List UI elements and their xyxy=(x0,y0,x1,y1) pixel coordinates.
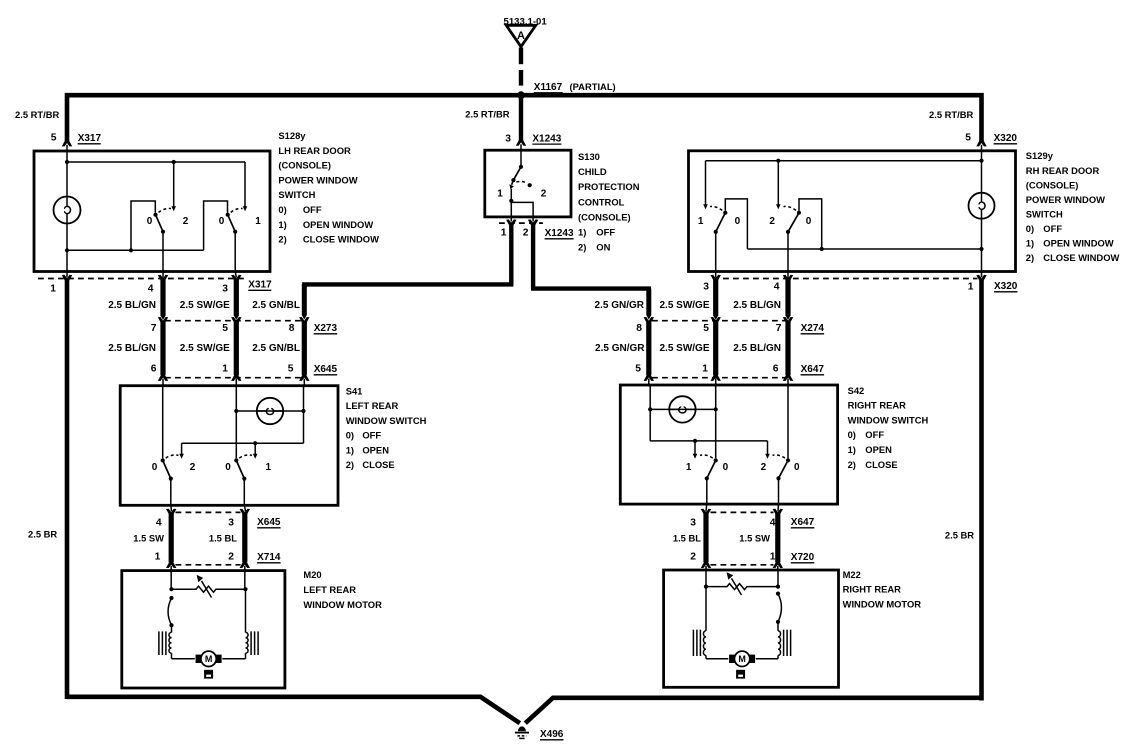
M20 case ground xyxy=(204,670,213,679)
M22 thermal contact arc xyxy=(776,592,780,596)
svg-text:A: A xyxy=(517,30,525,42)
svg-text:WINDOW SWITCH: WINDOW SWITCH xyxy=(346,415,427,426)
X645 pin 4 to X714 pin 1 wire 1.5 SW xyxy=(166,509,176,516)
svg-text:0): 0) xyxy=(1026,223,1034,234)
svg-text:5: 5 xyxy=(288,364,294,375)
node S41 lamp left xyxy=(234,409,238,413)
field coil M22 right xyxy=(778,631,781,656)
svg-text:1: 1 xyxy=(155,552,161,563)
svg-text:2: 2 xyxy=(541,189,547,200)
svg-text:WINDOW MOTOR: WINDOW MOTOR xyxy=(843,598,922,609)
M22 input wire right xyxy=(777,571,779,586)
node switch1 pivot xyxy=(161,230,165,234)
svg-text:PROTECTION: PROTECTION xyxy=(578,181,640,192)
svg-text:1.5 BL: 1.5 BL xyxy=(673,532,701,543)
svg-text:2.5 SW/GE: 2.5 SW/GE xyxy=(180,343,230,354)
X1243 pin 1 connector and wire 2.5 GN/BL xyxy=(506,219,516,226)
X273 pin 7 to X645 pin 6 wire 2.5 BL/GN xyxy=(158,317,168,324)
svg-text:2): 2) xyxy=(578,242,586,253)
switch2 S129y contact 0 xyxy=(797,211,801,215)
connector X647 row xyxy=(652,377,790,379)
M22 left branch wire xyxy=(705,587,707,631)
connector X320 pin 5 entry xyxy=(976,139,986,146)
svg-text:OPEN: OPEN xyxy=(362,444,389,455)
svg-text:5: 5 xyxy=(965,133,971,144)
svg-text:0): 0) xyxy=(346,430,354,441)
node S42 rail junction xyxy=(693,439,697,443)
svg-text:1.5 BL: 1.5 BL xyxy=(209,532,237,543)
connector X1243 row xyxy=(499,222,543,224)
svg-text:3: 3 xyxy=(690,517,696,528)
switch1 S129y dashed throw xyxy=(710,206,722,210)
switch2 S129y lever xyxy=(788,213,799,232)
svg-text:CLOSE WINDOW: CLOSE WINDOW xyxy=(1043,252,1119,263)
svg-text:3: 3 xyxy=(505,133,511,144)
svg-text:2.5 BR: 2.5 BR xyxy=(945,530,974,541)
M20 left core lines xyxy=(165,631,167,655)
svg-text:7: 7 xyxy=(151,323,157,334)
svg-text:1: 1 xyxy=(497,189,503,200)
S41 cross rail wire xyxy=(182,442,304,444)
S42 pin3 stub xyxy=(705,504,708,512)
M22 input wire left xyxy=(705,571,707,586)
M22 right branch wire xyxy=(777,622,779,631)
svg-text:4: 4 xyxy=(770,517,776,528)
svg-text:1: 1 xyxy=(222,364,228,375)
connector X645 row xyxy=(165,377,302,379)
S129y top rail wire xyxy=(706,160,982,162)
svg-text:0: 0 xyxy=(225,462,231,473)
X645 pin 6 entry to S41 xyxy=(158,374,168,381)
connector X1243 pin 3 entry xyxy=(516,139,526,146)
switch S130 lever xyxy=(513,167,521,180)
S128y lamp branch wire xyxy=(66,152,68,197)
connector X320 row xyxy=(713,278,978,280)
node S129y top rail junction xyxy=(776,159,780,163)
svg-text:2.5 GN/BL: 2.5 GN/BL xyxy=(252,300,300,311)
node S130 lever kink xyxy=(511,178,515,182)
svg-text:2): 2) xyxy=(278,234,286,245)
svg-text:8: 8 xyxy=(289,323,295,334)
svg-text:0: 0 xyxy=(723,462,729,473)
svg-text:2: 2 xyxy=(761,462,767,473)
M20 input wire left xyxy=(170,572,172,589)
M22 right core lines xyxy=(783,630,785,656)
svg-text:1: 1 xyxy=(770,552,776,563)
svg-text:X645: X645 xyxy=(257,517,281,528)
svg-text:2.5 BL/GN: 2.5 BL/GN xyxy=(733,343,781,354)
switch S130 box xyxy=(485,150,571,217)
svg-text:S42: S42 xyxy=(848,385,865,396)
svg-text:2): 2) xyxy=(346,459,354,470)
node S128y bottom rail junction xyxy=(129,248,133,252)
switch2 S42 lever xyxy=(779,460,789,478)
svg-text:X317: X317 xyxy=(248,280,272,291)
svg-text:CLOSE: CLOSE xyxy=(362,459,394,470)
svg-text:2.5 RT/BR: 2.5 RT/BR xyxy=(15,109,60,120)
svg-text:RIGHT REAR: RIGHT REAR xyxy=(848,400,907,411)
node S42 lamp right xyxy=(714,407,718,411)
motor M20 box xyxy=(122,571,285,688)
svg-text:1: 1 xyxy=(501,228,507,239)
svg-text:(CONSOLE): (CONSOLE) xyxy=(278,160,331,171)
switch1 S41 lever xyxy=(163,460,171,478)
svg-text:(CONSOLE): (CONSOLE) xyxy=(1026,179,1079,190)
S130 contact 2 dot xyxy=(528,183,532,187)
svg-text:LH REAR DOOR: LH REAR DOOR xyxy=(278,145,351,156)
svg-text:2.5 RT/BR: 2.5 RT/BR xyxy=(465,108,510,119)
S129y pin 4 stub xyxy=(787,271,789,278)
S129y bottom rail wire xyxy=(747,248,981,250)
node X1167 bus junction xyxy=(517,91,525,99)
S129y hook wire to switch2 contact 0 xyxy=(799,199,822,249)
S128y bottom rail wire xyxy=(67,249,204,251)
switch1 S128y lever xyxy=(156,215,164,232)
svg-text:4: 4 xyxy=(156,517,162,528)
X317 pin 4 to X273 pin 7 wire 2.5 BL/GN xyxy=(158,275,168,282)
svg-text:2: 2 xyxy=(690,552,696,563)
connector X645 lower row xyxy=(176,511,241,513)
svg-text:SWITCH: SWITCH xyxy=(278,189,315,200)
M22 resistor arrow xyxy=(732,578,742,595)
svg-text:0: 0 xyxy=(794,462,800,473)
lamp in S42 xyxy=(669,396,695,422)
svg-text:M: M xyxy=(738,654,746,664)
X320 pin 1 connector and wire 2.5 BR xyxy=(981,271,983,277)
S130 lever arrowhead xyxy=(509,184,514,189)
S42 switch2 output wire xyxy=(778,478,780,503)
S42 column pin6 wire xyxy=(787,386,789,458)
svg-text:1: 1 xyxy=(50,283,56,294)
node S42 lamp left xyxy=(648,407,652,411)
svg-text:X320: X320 xyxy=(994,133,1018,144)
node switch2 pivot xyxy=(233,230,237,234)
svg-text:S129y: S129y xyxy=(1026,150,1054,161)
power feed triangle A xyxy=(506,25,536,46)
M20 input wire right xyxy=(244,572,246,589)
svg-text:1: 1 xyxy=(266,462,272,473)
X1243 pin 2 connector and wire 2.5 GN/GR xyxy=(528,219,538,226)
connector X317 pin 5 entry xyxy=(62,139,72,146)
X647 pin 6 entry to S42 xyxy=(783,374,793,381)
svg-text:1: 1 xyxy=(702,364,708,375)
lamp in S41 xyxy=(257,398,283,424)
S42 cross rail wire xyxy=(650,440,767,442)
X720 pin 1 entry to M22 xyxy=(773,561,783,568)
X714 pin 2 entry to M20 xyxy=(240,561,250,568)
svg-text:X714: X714 xyxy=(257,552,281,563)
M20 resistor arrow xyxy=(202,581,212,598)
S129y switch2 output wire xyxy=(787,232,789,271)
motor M22 box xyxy=(664,570,839,687)
svg-text:0: 0 xyxy=(806,216,812,227)
svg-text:0: 0 xyxy=(147,216,153,227)
M20 left branch wire xyxy=(171,625,173,632)
M22 left core lines xyxy=(699,630,701,656)
svg-text:8: 8 xyxy=(636,323,642,334)
X645 pin 5 entry to S41 xyxy=(299,374,309,381)
svg-text:1: 1 xyxy=(686,462,692,473)
node S129y top-right junction xyxy=(979,159,983,163)
svg-text:WINDOW SWITCH: WINDOW SWITCH xyxy=(848,414,929,425)
svg-text:OFF: OFF xyxy=(1043,223,1062,234)
svg-text:2.5 BL/GN: 2.5 BL/GN xyxy=(108,343,156,354)
ground X496 dome xyxy=(518,726,526,731)
S128y wire drop to contact 1 xyxy=(244,162,246,207)
switch1 S42 contact 0 xyxy=(714,458,718,462)
svg-text:2.5 SW/GE: 2.5 SW/GE xyxy=(180,300,230,311)
svg-text:2.5 GN/BL: 2.5 GN/BL xyxy=(252,343,300,354)
svg-text:X1243: X1243 xyxy=(545,228,574,239)
S42 drop to contact 2 xyxy=(767,441,769,454)
X320 pin 4 to X274 pin 7 wire 2.5 BL/GN xyxy=(783,275,793,282)
node S41 rail junction xyxy=(253,441,257,445)
node M22 left top xyxy=(704,585,708,589)
svg-text:0: 0 xyxy=(152,462,158,473)
svg-text:X274: X274 xyxy=(801,323,825,334)
S128y wire drop to contact 2 xyxy=(173,162,175,207)
svg-text:2: 2 xyxy=(228,552,234,563)
svg-text:M: M xyxy=(205,654,213,664)
wire bottom ground bus right xyxy=(525,698,981,723)
S42 column pin1 wire xyxy=(715,386,717,458)
connector X317 row xyxy=(38,278,245,280)
svg-text:1: 1 xyxy=(255,216,261,227)
svg-text:S130: S130 xyxy=(578,151,600,162)
S128y pin 4 stub xyxy=(162,271,164,278)
svg-text:M20: M20 xyxy=(303,569,321,580)
svg-text:POWER WINDOW: POWER WINDOW xyxy=(1026,194,1105,205)
S128y top rail wire xyxy=(67,161,245,163)
S42 column pin5 wire xyxy=(649,386,651,441)
svg-text:OFF: OFF xyxy=(865,429,884,440)
switch1 S128y dashed throw xyxy=(159,208,172,212)
S130 branch wire to pin 2 xyxy=(511,202,533,216)
S42 pin4 stub xyxy=(777,504,780,512)
svg-text:2): 2) xyxy=(1026,252,1034,263)
svg-text:X1167: X1167 xyxy=(534,82,563,93)
svg-text:2.5 GN/GR: 2.5 GN/GR xyxy=(595,300,645,311)
S42 drop to contact 1 xyxy=(694,441,696,454)
switch2 S41 dashed throw xyxy=(239,455,252,458)
node S129y bottom rail junction xyxy=(820,247,824,251)
switch1 S129y contact 0 xyxy=(723,211,727,215)
svg-text:1): 1) xyxy=(578,227,586,238)
svg-text:2.5 BL/GN: 2.5 BL/GN xyxy=(108,300,156,311)
S130 input wire xyxy=(520,152,522,167)
S130 contact 1 wire xyxy=(510,189,512,216)
svg-text:WINDOW MOTOR: WINDOW MOTOR xyxy=(303,599,382,610)
X274 pin 8 to X647 pin 5 wire 2.5 GN/GR xyxy=(644,317,654,324)
node S42 switch1 pivot xyxy=(705,476,709,480)
field coil M20 left xyxy=(169,632,172,653)
S41 column pin5 wire xyxy=(303,387,305,443)
svg-text:X1243: X1243 xyxy=(532,133,561,144)
S42 switch1 output wire xyxy=(706,478,708,503)
connector X720 row xyxy=(711,564,774,566)
node S41 switch1 pivot xyxy=(169,477,173,481)
switch S128y box xyxy=(34,151,270,272)
X647 pin 5 entry to S42 xyxy=(644,374,654,381)
svg-text:3: 3 xyxy=(703,281,709,292)
svg-text:CHILD: CHILD xyxy=(578,166,607,177)
S41 pin3 stub xyxy=(244,505,245,512)
svg-text:CLOSE WINDOW: CLOSE WINDOW xyxy=(303,234,379,245)
svg-text:7: 7 xyxy=(776,323,782,334)
svg-text:2.5 BL/GN: 2.5 BL/GN xyxy=(733,300,781,311)
M20 left bottom wire xyxy=(171,653,173,659)
svg-text:0: 0 xyxy=(219,216,225,227)
switch2 S42 contact 0 xyxy=(786,458,790,462)
switch2 S129y dashed throw xyxy=(784,206,797,210)
svg-text:OPEN WINDOW: OPEN WINDOW xyxy=(303,219,373,230)
svg-text:CONTROL: CONTROL xyxy=(578,196,625,207)
wire 2.5 RT/BR main bus xyxy=(67,95,982,141)
X320 pin 3 to X274 pin 5 wire 2.5 SW/GE xyxy=(711,275,721,282)
switch S42 box xyxy=(620,385,837,504)
S42 lamp rail wire xyxy=(650,408,716,410)
switch1 S128y contact 0 xyxy=(153,213,157,217)
svg-text:S128y: S128y xyxy=(278,130,306,141)
field coil M22 left xyxy=(703,631,706,656)
switch1 S41 dashed throw xyxy=(166,455,179,458)
connector X273 row xyxy=(165,320,302,322)
svg-text:(CONSOLE): (CONSOLE) xyxy=(578,211,631,222)
switch1 S41 contact 0 xyxy=(161,458,165,462)
M20 right branch wire xyxy=(245,589,247,632)
svg-text:0): 0) xyxy=(278,204,286,215)
node S129y bottom-right junction xyxy=(979,247,983,251)
switch2 S41 lever xyxy=(236,460,244,478)
ground X496 bars xyxy=(515,732,529,734)
svg-text:X645: X645 xyxy=(314,364,338,375)
X274 pin 7 to X647 pin 6 wire 2.5 BL/GN xyxy=(783,317,793,324)
svg-text:LEFT REAR: LEFT REAR xyxy=(346,400,399,411)
switch2 S128y dashed throw xyxy=(231,208,243,212)
wire from triangle A to bus (dashed thick) xyxy=(519,48,523,65)
S129y wire drop to contact 2 xyxy=(777,161,779,205)
X647 pin 1 entry to S42 xyxy=(711,374,721,381)
connector X714 row xyxy=(176,564,241,566)
switch S41 box xyxy=(120,386,338,506)
svg-text:(PARTIAL): (PARTIAL) xyxy=(570,81,616,92)
connector X647 lower row xyxy=(711,511,774,513)
svg-text:RIGHT REAR: RIGHT REAR xyxy=(843,584,902,595)
svg-text:OPEN WINDOW: OPEN WINDOW xyxy=(1043,238,1113,249)
connector X274 row xyxy=(652,320,790,322)
lamp in S129y xyxy=(969,193,995,219)
svg-text:3: 3 xyxy=(228,517,234,528)
svg-text:RH REAR DOOR: RH REAR DOOR xyxy=(1026,165,1100,176)
S128y switch1 output wire xyxy=(162,232,164,271)
svg-text:LEFT REAR: LEFT REAR xyxy=(303,584,356,595)
switch1 S129y lever xyxy=(716,213,726,232)
S128y pin 3 stub xyxy=(235,271,236,278)
svg-text:1: 1 xyxy=(968,281,974,292)
M22 left bottom wire xyxy=(705,655,707,658)
S128y switch2 output wire xyxy=(234,232,236,271)
svg-text:0): 0) xyxy=(848,429,856,440)
svg-text:1.5 SW: 1.5 SW xyxy=(133,532,164,543)
node S128y top rail junction xyxy=(172,160,176,164)
S129y switch1 output wire xyxy=(715,232,717,271)
svg-text:1): 1) xyxy=(848,444,856,455)
svg-text:5: 5 xyxy=(703,323,709,334)
M20 right core lines xyxy=(250,631,252,655)
svg-text:0: 0 xyxy=(735,216,741,227)
svg-text:2.5 SW/GE: 2.5 SW/GE xyxy=(659,343,709,354)
svg-text:CLOSE: CLOSE xyxy=(865,459,897,470)
svg-text:POWER WINDOW: POWER WINDOW xyxy=(278,174,357,185)
S128y hook wire to switch2 contact 0 xyxy=(204,201,228,250)
svg-text:1: 1 xyxy=(698,216,704,227)
X273 pin 5 to X645 pin 1 wire 2.5 SW/GE xyxy=(231,317,241,324)
svg-text:X496: X496 xyxy=(540,729,564,740)
M22 case ground xyxy=(736,670,745,679)
node S129y switch2 pivot xyxy=(786,230,790,234)
node S129y switch1 pivot xyxy=(714,230,718,234)
switch2 S41 contact 0 xyxy=(234,458,238,462)
X647 pin 4 to X720 pin 1 wire 1.5 SW xyxy=(773,509,783,516)
S129y pin 3 stub xyxy=(715,271,717,278)
svg-text:1): 1) xyxy=(278,219,286,230)
X645 pin 1 entry to S41 xyxy=(231,374,241,381)
S130 pin 2 stub xyxy=(532,216,534,221)
resistor in M20 xyxy=(172,586,246,592)
svg-text:X320: X320 xyxy=(994,281,1018,292)
svg-text:1): 1) xyxy=(1026,238,1034,249)
S41 drop to contact 1 xyxy=(254,443,256,454)
svg-text:1.5 SW: 1.5 SW xyxy=(739,532,770,543)
svg-text:2: 2 xyxy=(190,462,196,473)
M20 thermal contact arc xyxy=(169,596,173,600)
svg-text:X647: X647 xyxy=(801,364,825,375)
svg-text:5: 5 xyxy=(51,133,57,144)
svg-text:6: 6 xyxy=(151,364,157,375)
S41 lamp rail wire xyxy=(236,410,303,412)
svg-text:5: 5 xyxy=(222,323,228,334)
S129y hook wire to switch1 contact 0 xyxy=(725,199,747,249)
switch1 S42 dashed throw xyxy=(700,455,713,458)
S41 column pin6 wire xyxy=(162,387,164,458)
X714 pin 1 entry to M20 xyxy=(166,561,176,568)
motor M22 armature xyxy=(729,655,736,663)
svg-text:2): 2) xyxy=(848,459,856,470)
motor M20 armature xyxy=(196,655,203,663)
S41 switch2 output wire xyxy=(243,479,245,505)
switch2 S128y lever xyxy=(228,215,236,232)
svg-text:2.5 RT/BR: 2.5 RT/BR xyxy=(929,109,974,120)
S41 drop to contact 2 xyxy=(181,443,183,454)
switch2 S42 dashed throw xyxy=(773,455,786,458)
S129y wire drop to contact 1 xyxy=(705,161,707,205)
node S128y bottom-left junction xyxy=(65,248,69,252)
svg-text:X647: X647 xyxy=(791,517,815,528)
svg-text:M22: M22 xyxy=(843,569,861,580)
M22 right bottom wire xyxy=(777,655,779,658)
svg-text:S41: S41 xyxy=(346,385,363,396)
X720 pin 2 entry to M22 xyxy=(701,561,711,568)
svg-text:X273: X273 xyxy=(314,323,338,334)
X273 pin 8 to X645 pin 5 wire 2.5 GN/BL xyxy=(299,317,309,324)
switch2 S128y contact 0 xyxy=(226,213,230,217)
svg-text:2: 2 xyxy=(769,216,775,227)
M20 right bottom wire xyxy=(245,653,247,659)
node S41 lamp right xyxy=(301,409,305,413)
svg-text:SWITCH: SWITCH xyxy=(1026,208,1063,219)
svg-text:4: 4 xyxy=(148,283,154,294)
svg-text:OFF: OFF xyxy=(362,430,381,441)
